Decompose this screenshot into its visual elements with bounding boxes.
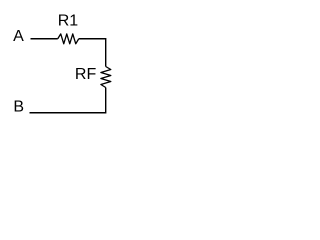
svg-text:RF: RF [75,66,97,83]
wire: RF bottom lead down to bottom-right corner, then left to node B [30,88,106,113]
resistor RF [75,66,111,87]
wire: node A to R1 left lead [31,38,58,40]
svg-text:B: B [13,99,24,116]
svg-text:A: A [13,28,24,45]
svg-text:R1: R1 [58,13,79,30]
resistor R1 [58,13,79,44]
wire: R1 right lead to top-right corner, then down to RF top [79,39,106,67]
